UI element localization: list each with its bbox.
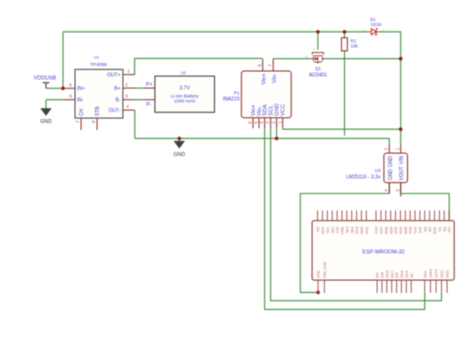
pin ESP32 bottom IO5 <box>396 280 398 293</box>
pin 6 Vin+ bottom <box>252 118 254 129</box>
svg-text:3V3: 3V3 <box>448 226 452 232</box>
pin 2 GND top <box>388 144 390 153</box>
svg-text:B+: B+ <box>114 86 120 92</box>
pin ESP32 top IO2 <box>317 210 319 220</box>
svg-text:IO35: IO35 <box>404 226 408 233</box>
diode D1 SS34 <box>368 29 381 36</box>
svg-text:Vin+: Vin+ <box>261 73 267 84</box>
svg-text:IO22: IO22 <box>440 270 444 277</box>
pin ESP32 bottom IO17 <box>391 280 393 293</box>
pin ESP32 bottom IO23 <box>446 280 448 293</box>
wire GND rail <box>135 138 389 144</box>
wire VDDUSB flag to IN+ <box>46 87 63 89</box>
pin 1 VCC bottom <box>282 118 284 129</box>
svg-text:Vin-: Vin- <box>272 73 278 83</box>
pin 2 GND bottom <box>276 118 278 129</box>
wire output node to VIN <box>400 59 402 145</box>
svg-text:1: 1 <box>127 69 130 74</box>
pin ESP32 bottom IO16 <box>386 280 388 293</box>
svg-text:5: 5 <box>69 82 72 87</box>
svg-text:SD1: SD1 <box>326 226 330 233</box>
svg-text:6: 6 <box>69 94 72 99</box>
pin 8 Vin+ top <box>262 59 264 71</box>
svg-text:IO21: IO21 <box>423 270 427 277</box>
module P1 INA219 body <box>241 71 291 118</box>
svg-text:EN: EN <box>423 226 427 231</box>
svg-text:10k: 10k <box>351 43 359 48</box>
pin 7 Vin- top <box>272 59 274 71</box>
svg-text:U0TX: U0TX <box>435 268 439 277</box>
pin ESP32 bottom IO18 <box>400 280 402 293</box>
svg-text:SD0: SD0 <box>331 226 335 233</box>
svg-text:4: 4 <box>126 104 129 109</box>
svg-text:P-: P- <box>146 102 151 108</box>
wire VCC to output node <box>283 128 401 129</box>
wire B+ to P+ <box>135 87 143 89</box>
svg-text:SS34: SS34 <box>371 22 382 27</box>
wire SCL net <box>271 128 442 301</box>
pin ESP32 top SD1 <box>326 210 328 220</box>
svg-text:GND: GND <box>40 119 52 125</box>
svg-text:IO13: IO13 <box>355 226 359 233</box>
svg-text:VOUT: VOUT <box>399 166 405 180</box>
junction GND symbol on rail <box>178 137 182 141</box>
power flag VDDUSB <box>43 83 50 89</box>
svg-text:P1: P1 <box>234 91 240 96</box>
pin ESP32 top SVN <box>414 210 416 220</box>
svg-text:AO3401: AO3401 <box>309 72 328 78</box>
pin ESP32 top IO33 <box>395 210 397 220</box>
pin 3 SCL bottom <box>270 118 272 129</box>
svg-text:P+: P+ <box>146 82 153 88</box>
pin ESP32 top EN <box>443 210 445 220</box>
svg-text:LM25116 - 3.3v: LM25116 - 3.3v <box>346 174 381 180</box>
pin 4 GND bottom <box>388 183 390 194</box>
svg-text:2: 2 <box>125 82 128 87</box>
svg-text:IN+: IN+ <box>77 86 85 92</box>
svg-text:IO25: IO25 <box>389 226 393 233</box>
pin ESP32 top SVP <box>419 210 421 220</box>
svg-text:IO4: IO4 <box>381 272 385 278</box>
pin P+ <box>143 87 155 89</box>
wire LM25116 GND to ESP32 GND <box>300 183 389 293</box>
svg-text:U0RX: U0RX <box>429 268 433 278</box>
svg-text:CLK: CLK <box>336 226 340 233</box>
pin 5 IN+ <box>63 87 75 89</box>
battery U2 body <box>155 76 215 112</box>
wire Vin- to Q1 source <box>273 58 311 60</box>
svg-text:STB: STB <box>95 106 101 116</box>
svg-text:U1: U1 <box>94 55 100 60</box>
ground GND (left) <box>41 109 51 116</box>
svg-text:IO17: IO17 <box>390 270 394 277</box>
wire VDDUSB left vertical <box>62 32 64 89</box>
svg-text:IO15: IO15 <box>321 226 325 233</box>
wire OUT- down <box>134 110 136 138</box>
module ESP-WROOM-32 body <box>312 221 454 281</box>
wire INA219 GND down <box>276 128 278 138</box>
pin ESP32 top IO25 <box>390 210 392 220</box>
svg-text:SD3: SD3 <box>345 226 349 233</box>
pin ESP32 bottom IO4 <box>381 280 383 293</box>
svg-text:IO5: IO5 <box>395 272 399 278</box>
wire B- to P- <box>135 99 143 101</box>
svg-text:INA219: INA219 <box>223 97 240 103</box>
svg-text:SVN: SVN <box>414 226 418 234</box>
wire VDDUSB top rail <box>63 31 368 33</box>
pin ESP32 bottom U0TX <box>435 280 437 293</box>
junction gate node <box>316 30 320 34</box>
svg-text:IO27: IO27 <box>380 226 384 233</box>
pin ESP32 top IO13 <box>356 210 358 220</box>
pin ESP32 top GND <box>434 210 436 220</box>
svg-text:CH: CH <box>79 108 85 116</box>
svg-text:GND: GND <box>433 226 437 234</box>
svg-text:IO34: IO34 <box>409 226 413 233</box>
svg-text:OUT+: OUT+ <box>107 73 121 79</box>
pin 3 VOUT bottom <box>400 183 402 197</box>
pin ESP32 bottom IO21 <box>424 280 426 293</box>
pin 1 VIN top <box>400 144 402 153</box>
svg-text:IO19: IO19 <box>405 270 409 277</box>
svg-text:IO26: IO26 <box>384 226 388 233</box>
junction ESP32 GND pin <box>316 291 320 295</box>
svg-text:GND: GND <box>360 226 364 234</box>
svg-text:GND: GND <box>174 152 186 158</box>
svg-text:IO18: IO18 <box>400 270 404 277</box>
pin 7 CH <box>80 118 82 130</box>
pin ESP32 top EN <box>424 210 426 220</box>
pin ESP32 top IO0 <box>429 210 431 220</box>
svg-text:NC: NC <box>410 272 414 277</box>
wire IN- to GND <box>46 99 63 101</box>
pin 5 Vin- bottom <box>258 118 260 129</box>
svg-text:IO0: IO0 <box>428 226 432 232</box>
svg-text:IO14: IO14 <box>375 226 379 233</box>
svg-text:Q1: Q1 <box>315 66 321 71</box>
regulator U3 LM25116-3.3v body <box>384 153 408 183</box>
pin ESP32 top CMD <box>341 210 343 220</box>
svg-text:GND: GND <box>275 103 281 115</box>
pin 8 STB <box>96 118 98 130</box>
svg-text:PAD_GND: PAD_GND <box>323 261 327 278</box>
IC U1 TP4056 body <box>75 69 123 118</box>
svg-text:IO2: IO2 <box>316 226 320 232</box>
pin ESP32 bottom GND <box>317 280 319 293</box>
wire OUT+ to Vin+ <box>135 58 263 74</box>
pin ESP32 top IO14 <box>375 210 377 220</box>
pin 2 B+ <box>123 87 135 89</box>
pin 1 OUT+ <box>123 74 135 76</box>
wire Q1 drain to output node <box>325 58 401 60</box>
svg-text:VCC: VCC <box>281 104 287 116</box>
pin ESP32 top IO15 <box>322 210 324 220</box>
transistor Q1 AO3401 <box>312 53 325 64</box>
pin ESP32 bottom NC <box>410 280 412 293</box>
pin ESP32 top SD0 <box>331 210 333 220</box>
pin 3 B- <box>123 99 135 101</box>
pin ESP32 bottom IO22 <box>441 280 443 293</box>
ground GND (battery rail) <box>178 138 180 141</box>
wire SDA net <box>265 128 425 309</box>
svg-text:3: 3 <box>125 94 128 99</box>
svg-text:IO0: IO0 <box>376 272 380 278</box>
pin 4 OUT- <box>123 109 135 111</box>
svg-text:IO33: IO33 <box>394 226 398 233</box>
svg-text:B-: B- <box>116 98 121 104</box>
svg-text:S: S <box>306 55 308 59</box>
pin ESP32 top GND <box>360 210 362 220</box>
svg-text:GND: GND <box>317 270 321 278</box>
svg-text:IN-: IN- <box>77 98 84 104</box>
pin ESP32 top IO27 <box>380 210 382 220</box>
junction output node <box>399 57 403 61</box>
pin ESP32 bottom IO19 <box>405 280 407 293</box>
junction R1 top node <box>343 30 347 34</box>
pin 6 IN- <box>63 99 75 101</box>
svg-text:U3: U3 <box>375 168 381 173</box>
svg-text:VIN: VIN <box>399 156 405 165</box>
pin 4 SDA bottom <box>264 118 266 129</box>
wire R1 bottom <box>344 51 346 136</box>
svg-text:IO12: IO12 <box>365 226 369 233</box>
svg-text:GND: GND <box>388 156 394 168</box>
pin ESP32 top 3V3 <box>448 210 450 220</box>
junction INA219 GND on rail <box>275 137 279 141</box>
svg-text:IO32: IO32 <box>399 226 403 233</box>
svg-text:IO23: IO23 <box>446 270 450 277</box>
pin ESP32 top IO12 <box>365 210 367 220</box>
pin ESP32 top IO35 <box>404 210 406 220</box>
wire VOUT to ESP32 3V3 <box>401 183 450 221</box>
wire gate to VDDUSB rail <box>317 32 319 50</box>
svg-text:GND: GND <box>388 169 394 181</box>
pin ESP32 top CLK <box>336 210 338 220</box>
junction VCC/VIN node <box>399 127 403 131</box>
wire D1 cathode to output node <box>381 32 401 59</box>
resistor R1 body <box>342 38 348 51</box>
pin ESP32 top IO32 <box>399 210 401 220</box>
svg-text:CMD: CMD <box>341 226 345 234</box>
svg-text:ESP-WROOM-32: ESP-WROOM-32 <box>362 249 404 255</box>
pin ESP32 bottom PAD_GND <box>323 280 325 293</box>
wire IN- gnd stem <box>45 100 47 109</box>
svg-text:3.7V: 3.7V <box>179 86 190 92</box>
pin ESP32 top SD3 <box>346 210 348 220</box>
svg-text:IO16: IO16 <box>385 270 389 277</box>
pin ESP32 top SD2 <box>351 210 353 220</box>
svg-text:EN: EN <box>443 226 447 231</box>
wire R1 top <box>344 32 346 38</box>
junction VDDUSB/IN+ node <box>61 87 65 91</box>
pin ESP32 top IO34 <box>409 210 411 220</box>
svg-text:1000 mAh: 1000 mAh <box>174 99 196 104</box>
pin ESP32 bottom IO0 <box>376 280 378 293</box>
svg-text:NC: NC <box>438 226 442 231</box>
pin ESP32 top IO26 <box>385 210 387 220</box>
svg-text:SD2: SD2 <box>350 226 354 233</box>
svg-text:TP4056: TP4056 <box>90 62 107 68</box>
svg-text:OUT-: OUT- <box>109 108 121 114</box>
pin ESP32 bottom U0RX <box>430 280 432 293</box>
svg-text:VDDUSB: VDDUSB <box>34 76 57 82</box>
svg-text:SVP: SVP <box>419 226 423 234</box>
pin ESP32 top NC <box>438 210 440 220</box>
pin P- <box>143 99 155 101</box>
svg-text:U2: U2 <box>181 70 187 75</box>
